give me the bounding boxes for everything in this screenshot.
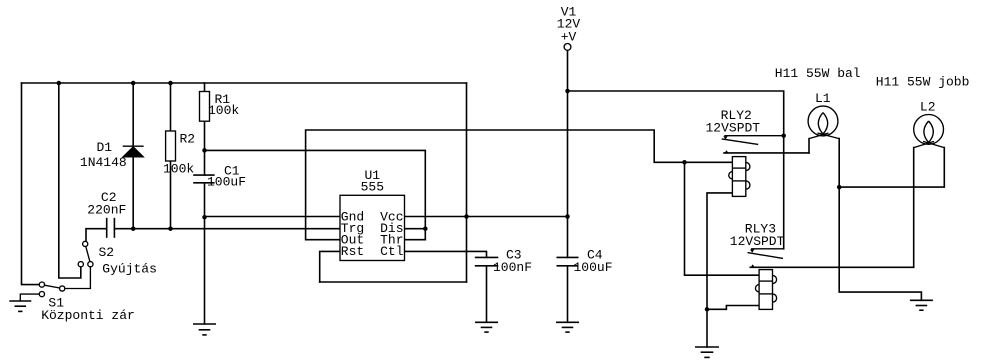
- svg-text:100k: 100k: [163, 161, 194, 176]
- node R1-Dis junction: [202, 148, 207, 153]
- ground C3: [475, 322, 498, 332]
- ground C1: [193, 324, 216, 335]
- ground C4: [556, 322, 579, 332]
- svg-text:Ctl: Ctl: [380, 244, 404, 259]
- wire node R1-R2 to Dis: [205, 150, 426, 239]
- wire L1 left leg: [808, 139, 810, 153]
- node relay ground junction: [705, 307, 710, 312]
- relay RLY2 common arrow: [723, 136, 727, 139]
- node R2-Trg junction: [168, 226, 173, 231]
- capacitor C4: [557, 257, 579, 265]
- wire RLY3 throw to L2 left leg: [750, 148, 913, 268]
- svg-text:100uF: 100uF: [574, 260, 613, 275]
- wire RLY2 coil bottom to ground node: [707, 193, 732, 309]
- wire C4 to ground: [567, 266, 569, 323]
- capacitor C3: [475, 257, 499, 265]
- wire C1 bottom to ground: [204, 183, 206, 324]
- ground S1: [9, 301, 31, 311]
- diode D1: [123, 146, 144, 157]
- wire D1 anode to Trg net: [132, 157, 134, 229]
- wire rail to D1 cathode: [132, 83, 134, 146]
- wire Rst pin: [320, 251, 340, 282]
- wire ground node to relay ground: [706, 309, 708, 347]
- svg-text:100k: 100k: [208, 103, 239, 118]
- wire R2 bottom to Trg net: [170, 161, 172, 229]
- relay RLY3 switch: [748, 249, 784, 259]
- wire Out loop to relays: [306, 130, 733, 240]
- wire V1 feed to relay commons: [568, 91, 784, 249]
- svg-text:D1: D1: [97, 140, 113, 155]
- wire C2 left to S2: [86, 229, 107, 242]
- svg-text:12VSPDT: 12VSPDT: [706, 121, 761, 136]
- svg-text:+V: +V: [561, 30, 577, 45]
- node V1-Vcc junction: [565, 214, 570, 219]
- wire L1 right leg to lamps ground: [839, 139, 921, 301]
- svg-text:555: 555: [361, 180, 384, 195]
- svg-text:100uF: 100uF: [207, 175, 246, 190]
- wire second column to S2 left throw: [59, 83, 81, 278]
- svg-text:L1: L1: [815, 91, 831, 106]
- switch S1: [39, 282, 65, 297]
- voltage source V1 terminal: [564, 44, 571, 51]
- wire rail to R2 top: [170, 83, 172, 131]
- wire Out node to RLY3 coil: [685, 162, 760, 275]
- svg-text:H11 55W bal: H11 55W bal: [775, 66, 861, 81]
- wire Vcc to top rail and Rst loop: [466, 83, 468, 282]
- relay RLY3 coil: [755, 270, 776, 310]
- wire V1 column: [567, 50, 569, 257]
- wire Gnd pin: [205, 216, 341, 218]
- relay RLY2 switch: [722, 136, 784, 145]
- svg-text:Rst: Rst: [341, 244, 364, 259]
- capacitor C1: [193, 175, 214, 183]
- lamp L2: [914, 114, 945, 147]
- capacitor C2: [107, 218, 115, 238]
- svg-text:S2: S2: [99, 245, 115, 260]
- node Vcc-Rst junction: [464, 214, 469, 219]
- relay RLY2 throw arrow: [724, 150, 729, 153]
- node Dis junction: [423, 226, 428, 231]
- wire Ctl to C3: [405, 251, 487, 257]
- wire RLY3 coil bottom to ground node: [707, 306, 759, 310]
- node V1 feed junction: [565, 89, 570, 94]
- svg-text:Központi zár: Központi zár: [41, 308, 135, 323]
- svg-text:L2: L2: [920, 100, 936, 115]
- wire Dis stub: [405, 228, 426, 230]
- resistor R2: [166, 131, 176, 161]
- ground relays: [695, 347, 719, 357]
- svg-text:Gyújtás: Gyújtás: [102, 261, 157, 276]
- relay RLY3 throw arrow: [750, 264, 755, 267]
- switch S2: [78, 241, 93, 267]
- node coil branch junction: [682, 160, 687, 165]
- svg-text:1N4148: 1N4148: [80, 155, 127, 170]
- svg-text:12VSPDT: 12VSPDT: [730, 234, 785, 249]
- ground lamps: [910, 300, 933, 310]
- wire Rst loop bottom: [320, 281, 467, 283]
- lamp L1: [808, 106, 839, 139]
- node L1-L2 junction: [837, 185, 842, 190]
- wire L1 to L2 link: [839, 148, 944, 188]
- svg-text:H11 55W jobb: H11 55W jobb: [876, 75, 970, 90]
- svg-text:100nF: 100nF: [493, 260, 532, 275]
- wire C3 to ground: [486, 266, 488, 323]
- wire Vcc pin: [405, 216, 568, 218]
- svg-text:220nF: 220nF: [87, 202, 126, 217]
- node rail-S2col junction: [57, 81, 62, 86]
- relay RLY3 common arrow: [750, 249, 754, 252]
- wire R1 bottom to C1 top: [204, 121, 206, 175]
- op-amp U1 555 timer box: [340, 195, 405, 260]
- node rail-R2 junction: [168, 81, 173, 86]
- node D1-Trg junction: [131, 226, 136, 231]
- relay RLY2 coil: [729, 157, 750, 197]
- switch S2 wire to S1: [65, 267, 91, 289]
- node RLY2 common junction: [781, 133, 786, 138]
- wire RLY2 throw to L1 left leg: [724, 152, 809, 154]
- wire rail to R1 top: [204, 83, 206, 92]
- node rail-D1 junction: [131, 81, 136, 86]
- switch S1 wire to ground: [20, 294, 39, 301]
- node Gnd-C1 junction: [202, 215, 207, 220]
- wire top +12V rail: [22, 82, 467, 84]
- resistor R1: [200, 92, 210, 122]
- svg-text:R2: R2: [180, 132, 196, 147]
- wire Trg net: [114, 228, 340, 230]
- wire Thr stub: [405, 239, 426, 241]
- wire left column to S1: [22, 83, 40, 285]
